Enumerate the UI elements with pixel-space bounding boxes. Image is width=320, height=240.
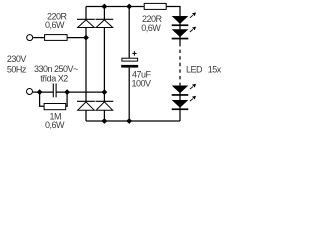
junction node right leg/top rail	[102, 4, 108, 10]
capacitor C2 47uF top plate	[122, 58, 138, 61]
terminal neutral input	[27, 89, 33, 95]
LED2	[172, 29, 189, 39]
junction node C1 right	[64, 89, 70, 95]
wire right bridge leg middle	[103, 28, 105, 102]
wire right bridge leg lower	[103, 110, 105, 121]
emission arrow LED1	[190, 12, 196, 17]
svg-text:0,6W: 0,6W	[45, 20, 65, 30]
wire bottom rail	[86, 120, 180, 122]
terminal live input	[27, 35, 33, 41]
svg-text:100V: 100V	[132, 79, 152, 89]
capacitor C1 330n plate right	[55, 84, 57, 98]
junction node right leg/neutral	[102, 89, 108, 95]
svg-text:LED: LED	[186, 65, 203, 75]
plus polarity mark C2	[132, 52, 136, 54]
wire top rail right to LED column	[166, 7, 180, 17]
diode D2 (bridge top-right)	[96, 19, 114, 27]
wire neutral input	[33, 91, 53, 93]
wire left bridge leg upper	[85, 7, 87, 20]
svg-text:15x: 15x	[208, 65, 222, 75]
capacitor C1 330n plate left	[52, 84, 54, 98]
wire top rail	[86, 6, 144, 8]
svg-text:50Hz: 50Hz	[7, 64, 27, 74]
emission arrow LED4	[190, 96, 196, 101]
wire left bridge leg middle	[85, 28, 87, 102]
diode D4 (bridge bottom-right)	[96, 101, 114, 110]
junction node C2/top rail	[126, 4, 132, 10]
svg-text:0,6W: 0,6W	[45, 120, 65, 130]
wire LED column solid top	[179, 16, 181, 43]
wire left bridge leg lower	[85, 110, 87, 121]
capacitor C2 47uF bottom plate	[121, 65, 138, 68]
junction node C2/bottom rail	[126, 118, 132, 124]
junction node C1 left	[37, 89, 43, 95]
wire 1M branch left	[40, 92, 45, 106]
resistor R3 1M 0,6W	[44, 104, 66, 110]
svg-text:třída X2: třída X2	[40, 74, 68, 84]
wire smoothing cap bottom	[128, 68, 130, 121]
svg-text:230V: 230V	[7, 54, 27, 64]
wire LED column solid bottom	[179, 85, 181, 121]
wire 1M branch return	[66, 92, 67, 106]
emission arrow LED2	[190, 27, 196, 32]
LED3	[172, 86, 189, 96]
junction node right leg/bottom rail	[102, 118, 108, 124]
wire C1 to right leg node	[56, 91, 104, 93]
LED1	[172, 16, 189, 26]
resistor R2 220R 0,6W (top right)	[144, 3, 166, 9]
emission arrow LED3	[190, 84, 196, 89]
svg-text:0,6W: 0,6W	[141, 23, 161, 33]
LED4	[172, 100, 189, 110]
resistor R1 220R 0,6W (input)	[45, 35, 68, 41]
wire LED string dashed continuation	[179, 43, 181, 85]
junction node R1/left leg	[83, 35, 89, 41]
wire R1 to left leg node	[67, 37, 86, 39]
diode D1 (bridge top-left)	[77, 19, 95, 27]
wire smoothing cap top	[128, 7, 130, 59]
wire right bridge leg upper	[103, 7, 105, 20]
wire live input to R1	[33, 37, 44, 39]
diode D3 (bridge bottom-left)	[77, 101, 95, 110]
